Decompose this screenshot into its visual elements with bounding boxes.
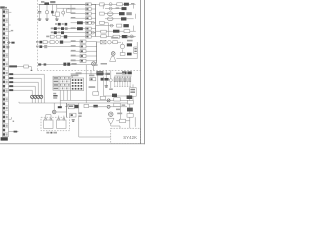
- resistor R12: [117, 3, 123, 6]
- wire: [116, 120, 119, 122]
- wire: [110, 70, 112, 78]
- LED LD2: [109, 7, 112, 10]
- crystal X1: [100, 40, 106, 44]
- lamp LP2: [107, 17, 113, 21]
- wire: [111, 125, 120, 127]
- label mid row: [71, 40, 76, 42]
- resistor R86: [127, 114, 133, 118]
- resistor R26: [65, 23, 68, 26]
- resistor R18: [119, 12, 125, 15]
- wire row2r: [105, 8, 122, 10]
- label row2r: [116, 7, 120, 8]
- resistor R27: [54, 27, 57, 30]
- resistor R13: [124, 3, 129, 6]
- wire: [119, 107, 121, 119]
- wire: [129, 117, 131, 128]
- label: [111, 37, 118, 39]
- resistor R41b: [101, 30, 106, 33]
- wire: [85, 65, 87, 103]
- resistor R30: [77, 27, 83, 30]
- resistor R54: [80, 59, 86, 62]
- wire: [31, 98, 33, 103]
- wire: [135, 14, 137, 19]
- diode D6: [44, 63, 47, 65]
- wire row3: [71, 13, 96, 15]
- resistor R24: [123, 24, 128, 27]
- wire right outer border: [143, 0, 145, 144]
- svg-text:SY42K: SY42K: [123, 135, 137, 140]
- resistor R83: [127, 95, 133, 99]
- label: [127, 40, 133, 42]
- wire: [51, 4, 53, 10]
- wire: [30, 67, 32, 70]
- diode D4: [62, 11, 65, 14]
- jack J2: [37, 95, 40, 98]
- transformer T2 circle: [111, 52, 115, 56]
- wire bottom bus1: [19, 102, 128, 104]
- wire: [40, 98, 42, 103]
- capacitor C1: [38, 10, 41, 12]
- wire stair: [8, 73, 44, 75]
- label: [58, 28, 61, 30]
- ground: [55, 18, 58, 21]
- wire: [122, 49, 124, 53]
- wire: [79, 136, 111, 138]
- label: [89, 86, 96, 88]
- wire: [107, 23, 109, 37]
- resistor R36: [86, 31, 92, 34]
- wire: [7, 42, 11, 44]
- wire bus vertical: [95, 4, 97, 36]
- wire: [62, 14, 64, 16]
- wire: [105, 70, 107, 78]
- label mid row: [71, 60, 76, 62]
- wire: [42, 46, 45, 48]
- wire row2: [71, 8, 96, 10]
- resistor R16: [86, 12, 92, 15]
- wire stair: [8, 81, 38, 83]
- label: [62, 23, 64, 25]
- label: [58, 32, 61, 34]
- regulator U2: [55, 12, 59, 16]
- wire: [136, 54, 138, 59]
- ground: [72, 118, 75, 121]
- wire pin stub: [9, 118, 12, 120]
- jack J5: [107, 99, 110, 102]
- wire: [97, 74, 99, 92]
- label net: [9, 65, 17, 67]
- label: [127, 36, 135, 38]
- wire stair: [8, 85, 35, 87]
- wire: [34, 98, 36, 103]
- diode D3: [45, 11, 48, 14]
- wire: [9, 66, 32, 68]
- label pin: [11, 30, 13, 31]
- wire: [59, 100, 61, 106]
- speaker SP1: [110, 56, 116, 61]
- resistor R80: [104, 78, 108, 81]
- connector CN1 bottom block: [1, 137, 8, 140]
- wire: [43, 96, 45, 103]
- resistor R70: [90, 78, 96, 81]
- wire: [122, 42, 124, 44]
- resistor R50: [80, 40, 86, 43]
- diode D7: [58, 106, 62, 108]
- wire: [70, 90, 72, 100]
- resistor R34: [54, 31, 57, 34]
- wire: [110, 123, 112, 126]
- capacitor C2: [51, 11, 53, 14]
- wire: [117, 95, 128, 97]
- label: [36, 41, 39, 43]
- label: [89, 75, 94, 77]
- wire: [68, 7, 70, 10]
- wire: [129, 111, 131, 113]
- resistor R23: [117, 24, 122, 27]
- LED LD3: [110, 24, 113, 27]
- resistor R11: [100, 3, 105, 6]
- wire bus2 vertical: [96, 42, 98, 64]
- jack J3: [34, 95, 37, 98]
- wire: [56, 4, 58, 12]
- resistor R17: [100, 12, 105, 15]
- resistor R61: [67, 63, 70, 66]
- motor M1: [120, 44, 124, 48]
- resistor R37: [50, 35, 54, 38]
- resistor R10: [86, 3, 92, 6]
- wire row8r: [96, 36, 136, 38]
- resistor R62: [113, 41, 118, 44]
- wire: [56, 16, 58, 18]
- label on dashed 2: [105, 73, 110, 75]
- jack J6: [107, 105, 110, 108]
- wire mid row: [71, 50, 97, 52]
- node terminal: [31, 70, 33, 71]
- resistor array RA1: [114, 76, 132, 87]
- filter FL1: [96, 71, 103, 75]
- label row6b: [71, 27, 76, 29]
- speaker horn: [108, 118, 114, 123]
- label CN1: [0, 6, 5, 8]
- wire: [18, 102, 20, 103]
- wire row5r: [96, 25, 114, 27]
- resistor R72: [75, 105, 79, 108]
- resistor R53: [80, 54, 86, 57]
- wire right inner border: [140, 0, 142, 144]
- resistor R25: [58, 23, 61, 26]
- wire: [39, 13, 41, 19]
- label stair net: [9, 85, 13, 87]
- diode D8: [112, 94, 117, 97]
- label stair net: [9, 77, 13, 79]
- resistor R43: [122, 35, 128, 38]
- resistor R71: [93, 92, 99, 95]
- label row4: [71, 17, 76, 19]
- jack J1: [40, 95, 43, 98]
- wire: [104, 95, 112, 97]
- wire mid row: [71, 41, 97, 43]
- label mid row: [71, 55, 76, 57]
- resistor R42: [113, 35, 120, 38]
- wire mid row: [71, 45, 97, 47]
- wire: [46, 14, 48, 19]
- diode D1: [11, 42, 14, 44]
- wire: [51, 13, 53, 15]
- wire: [104, 22, 108, 24]
- wire: [7, 38, 9, 47]
- label: [117, 113, 122, 115]
- resistor R56: [43, 41, 47, 44]
- resistor R81: [114, 98, 120, 101]
- resistor R73: [70, 113, 76, 117]
- wire: [9, 131, 19, 133]
- wire: [132, 96, 134, 100]
- wire: [133, 4, 135, 8]
- label rail0: [41, 1, 44, 3]
- wire mid row: [71, 55, 97, 57]
- inductor L1: [65, 103, 67, 117]
- resistor R59: [39, 45, 42, 48]
- jack J4: [31, 95, 34, 98]
- capacitor C10: [109, 79, 112, 82]
- capacitor C8: [108, 40, 112, 44]
- resistor R19: [126, 12, 131, 15]
- label: [71, 63, 76, 65]
- wire row1: [96, 3, 136, 5]
- resistor R88: [100, 96, 105, 99]
- resistor R58: [60, 41, 63, 44]
- wire: [119, 126, 121, 128]
- wire: [93, 66, 95, 71]
- resistor R33: [124, 30, 130, 33]
- wire: [136, 42, 138, 47]
- label mid row: [71, 50, 76, 52]
- wire: [59, 90, 61, 100]
- wire row4r: [105, 18, 121, 20]
- label mid row: [71, 45, 76, 47]
- label row3: [71, 12, 76, 14]
- keypad U4: [71, 78, 84, 91]
- capacitor C7: [56, 41, 59, 44]
- wire: [66, 90, 68, 100]
- wire: [110, 82, 112, 88]
- label RA1: [116, 73, 125, 75]
- wire: [38, 64, 93, 66]
- label stair net: [9, 73, 13, 75]
- thermistor TH1: [91, 21, 94, 24]
- wire bottom bus2: [60, 99, 128, 101]
- wire: [97, 41, 101, 43]
- wire bottom border: [0, 143, 145, 145]
- wire: [56, 111, 66, 113]
- resistor R85: [127, 108, 133, 112]
- node marks: [44, 45, 47, 48]
- wire: [47, 41, 50, 43]
- label rail: [50, 1, 55, 3]
- wire: [57, 7, 71, 9]
- resistor R64: [120, 53, 125, 56]
- wire dashed separator vertical: [36, 0, 38, 70]
- fuse F1: [44, 2, 49, 5]
- wire pin stub: [9, 24, 11, 26]
- wire: [78, 117, 80, 137]
- label: [36, 46, 39, 48]
- transformer T3 circle: [52, 110, 56, 114]
- label U4: [71, 74, 79, 76]
- ground: [38, 18, 41, 21]
- IC U6: [130, 88, 137, 97]
- capacitor C3: [66, 9, 71, 12]
- title block box: [111, 128, 141, 143]
- wire speaker tab2: [58, 116, 60, 119]
- wire: [103, 77, 105, 96]
- wire row4: [71, 17, 96, 19]
- wire: [90, 70, 92, 74]
- label: [98, 73, 104, 75]
- capacitor C9: [101, 78, 104, 81]
- wire mid row: [71, 60, 97, 62]
- resistor R41: [101, 35, 106, 38]
- microphone MIC1: [109, 112, 113, 116]
- wire stair: [8, 89, 32, 91]
- resistor R39: [64, 35, 67, 38]
- label speakers: [46, 132, 49, 134]
- resistor R38: [56, 35, 60, 38]
- ground: [105, 84, 108, 87]
- resistor R22: [86, 21, 92, 24]
- wire: [129, 104, 131, 108]
- resistor R63: [127, 43, 132, 46]
- wire: [47, 46, 70, 48]
- label stair net: [9, 89, 13, 91]
- wire dashed separator horizontal: [37, 69, 140, 71]
- transformer T1 circle: [92, 62, 96, 66]
- IC U5: [68, 104, 74, 109]
- label row8: [46, 36, 49, 38]
- label row1: [131, 3, 134, 4]
- speaker SP2: [44, 120, 53, 128]
- resistor R57: [50, 41, 54, 44]
- label: [116, 109, 120, 111]
- label on dashed: [122, 71, 127, 74]
- LED LD1: [109, 3, 112, 6]
- wire: [134, 117, 136, 127]
- IC U3: [134, 47, 138, 53]
- wire row8: [55, 36, 96, 38]
- ground: [7, 46, 10, 49]
- resistor R55: [39, 41, 42, 44]
- speaker box dashed: [41, 117, 70, 131]
- wire pin stub: [9, 30, 11, 32]
- capacitor C6: [130, 35, 133, 38]
- wire row7: [51, 32, 96, 34]
- node junction: [8, 42, 10, 44]
- resistor R65: [127, 53, 132, 56]
- label row7: [51, 32, 53, 34]
- resistor R2: [24, 65, 29, 68]
- wire: [105, 81, 107, 86]
- wire stair: [8, 77, 41, 79]
- ground: [45, 18, 48, 21]
- wire: [53, 103, 55, 110]
- wire: [39, 4, 41, 11]
- wire: [129, 99, 131, 101]
- wire: [37, 98, 39, 103]
- resistor R15: [122, 7, 127, 10]
- wire speaker tab: [45, 115, 47, 119]
- node: [13, 121, 15, 122]
- resistor R22a: [77, 21, 83, 24]
- capacitor C5: [91, 31, 94, 34]
- label SW1: [53, 93, 56, 95]
- wire: [62, 8, 64, 11]
- wire pin stub: [9, 11, 12, 13]
- resistor R20: [86, 17, 92, 20]
- wire: [78, 103, 80, 112]
- connector CN1: [2, 9, 8, 136]
- wire: [71, 73, 98, 75]
- resistor R14: [86, 8, 92, 11]
- switch block SW1: [53, 76, 72, 90]
- wire: [110, 106, 127, 108]
- label: [78, 112, 82, 114]
- resistor R32: [113, 30, 119, 33]
- wire: [70, 4, 72, 8]
- wire: [133, 26, 135, 32]
- wire: [116, 58, 137, 60]
- diode D5: [38, 63, 41, 65]
- label: [76, 72, 82, 74]
- wire: [63, 90, 65, 100]
- label rowA: [55, 23, 57, 25]
- resistor R28: [61, 27, 64, 30]
- wire: [63, 41, 70, 43]
- resistor R21: [121, 17, 126, 20]
- resistor R87: [119, 119, 125, 122]
- label row6: [51, 28, 53, 30]
- wire: [46, 4, 48, 10]
- wire row3r: [104, 13, 119, 15]
- resistor R40: [86, 35, 92, 38]
- label above dashed: [94, 64, 98, 66]
- speaker SP3: [57, 120, 66, 128]
- resistor R52: [80, 50, 86, 53]
- diode D2: [14, 131, 18, 133]
- wire power rail: [39, 3, 96, 5]
- wire: [89, 106, 108, 108]
- label: [109, 88, 113, 90]
- wire row6: [51, 28, 96, 30]
- wire: [126, 18, 133, 20]
- wire: [132, 84, 134, 87]
- wire row6r: [96, 30, 136, 32]
- lamp LP1: [107, 12, 113, 16]
- wire: [111, 41, 121, 43]
- resistor R82: [114, 103, 120, 106]
- wire row5: [71, 22, 96, 24]
- resistor R31: [86, 27, 92, 30]
- resistor R60: [63, 63, 66, 66]
- resistor R51: [80, 45, 86, 48]
- label stair net: [9, 81, 13, 83]
- resistor R29: [65, 27, 68, 30]
- resistor R84: [127, 101, 133, 104]
- wire: [102, 4, 104, 9]
- label: [122, 104, 126, 106]
- label row2: [71, 8, 76, 10]
- resistor R89: [93, 105, 97, 108]
- wire: [126, 120, 130, 122]
